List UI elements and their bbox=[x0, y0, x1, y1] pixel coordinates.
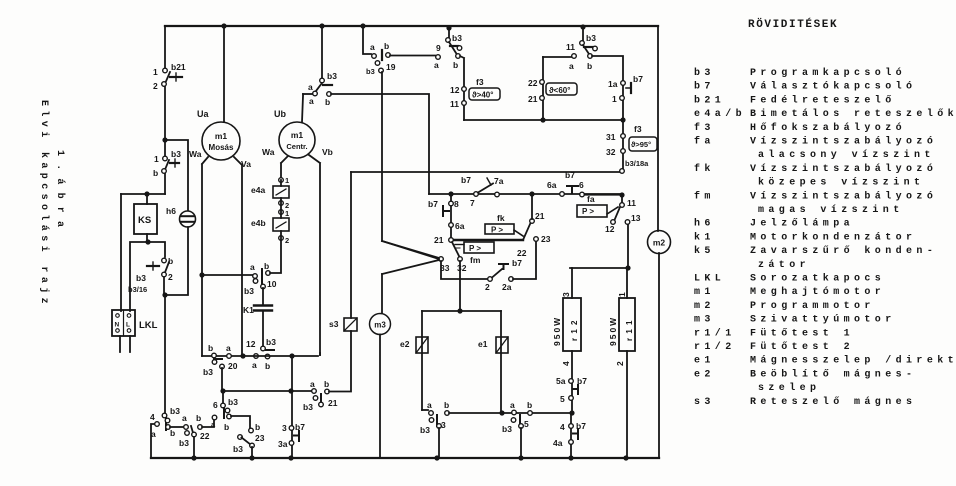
selector b7 contacts 1a-1 bbox=[621, 81, 626, 86]
pressure switch fm contacts 21-32-33 bbox=[449, 238, 454, 243]
wire 11 b right and down bbox=[592, 56, 623, 120]
svg-text:m1: m1 bbox=[291, 130, 304, 140]
switch b3 contact 10 bbox=[202, 274, 253, 276]
svg-text:b: b bbox=[587, 61, 592, 71]
svg-text:b3: b3 bbox=[170, 406, 180, 416]
pressure switch fk bbox=[452, 239, 523, 241]
svg-text:Fedélreteszelő: Fedélreteszelő bbox=[750, 94, 896, 106]
switch b3 contact 21 (lower middle) bbox=[312, 389, 317, 394]
svg-text:m1: m1 bbox=[694, 287, 715, 298]
svg-text:b3: b3 bbox=[420, 425, 430, 435]
svg-text:2: 2 bbox=[485, 282, 490, 292]
switch b3 contact 11 bbox=[582, 27, 584, 40]
svg-text:fa: fa bbox=[694, 136, 715, 148]
svg-text:a: a bbox=[434, 60, 439, 70]
svg-text:Vízszintszabályozó: Vízszintszabályozó bbox=[750, 136, 937, 148]
svg-text:4a: 4a bbox=[553, 438, 563, 448]
svg-text:Ua: Ua bbox=[197, 109, 209, 119]
wire row y413 bbox=[449, 412, 571, 414]
svg-text:e4a/b: e4a/b bbox=[694, 108, 746, 120]
wire switch22 b up to contact a bbox=[198, 425, 203, 430]
svg-text:e2: e2 bbox=[400, 339, 410, 349]
svg-text:m1: m1 bbox=[215, 131, 228, 141]
svg-text:r 1 1: r 1 1 bbox=[625, 320, 634, 341]
node junction above KS bbox=[121, 193, 165, 195]
wire r1/1 pin2 down bbox=[626, 351, 628, 458]
selector b7 contacts 2-2a bbox=[488, 277, 493, 282]
svg-text:b3: b3 bbox=[179, 438, 189, 448]
svg-text:Ub: Ub bbox=[274, 109, 286, 119]
svg-text:r 1 2: r 1 2 bbox=[570, 320, 579, 341]
svg-text:m3: m3 bbox=[374, 321, 386, 330]
wire fm 32 down to e-valve row bbox=[459, 261, 461, 311]
svg-text:b7: b7 bbox=[633, 74, 643, 84]
svg-text:Fütőtest 1: Fütőtest 1 bbox=[750, 327, 854, 339]
wire 9 b down to f3 bbox=[460, 56, 464, 120]
svg-text:LKL: LKL bbox=[139, 320, 158, 331]
svg-text:RÖVIDITÉSEK: RÖVIDITÉSEK bbox=[748, 17, 838, 31]
wire top supply bus bbox=[165, 25, 658, 27]
wire b3/16 down to switch 4 bbox=[164, 295, 166, 413]
svg-text:23: 23 bbox=[541, 234, 551, 244]
svg-text:P >: P > bbox=[491, 226, 503, 235]
svg-text:4: 4 bbox=[561, 361, 571, 366]
wire Vb corner into row bbox=[319, 353, 321, 355]
wire horizontal y120 bbox=[464, 119, 623, 121]
svg-text:1: 1 bbox=[154, 154, 159, 164]
wire to terminal L bbox=[130, 242, 148, 311]
svg-text:P >: P > bbox=[469, 244, 481, 253]
selector b7 contacts 7-7a bbox=[474, 192, 479, 197]
svg-text:6a: 6a bbox=[547, 180, 557, 190]
svg-text:7a: 7a bbox=[494, 176, 504, 186]
switch b3 a-b (above spin motor) bbox=[321, 26, 323, 78]
pressure switch fa contacts 11-12-13 bbox=[621, 195, 623, 203]
svg-text:b3: b3 bbox=[233, 444, 243, 454]
svg-text:1.ábra: 1.ábra bbox=[54, 150, 66, 235]
svg-text:Reteszelő mágnes: Reteszelő mágnes bbox=[750, 396, 916, 408]
svg-text:21: 21 bbox=[434, 235, 444, 245]
wire b3 a to motor top bbox=[303, 93, 312, 95]
svg-text:5: 5 bbox=[524, 419, 529, 429]
svg-text:22: 22 bbox=[528, 78, 538, 88]
svg-text:közepes vízszint: közepes vízszint bbox=[758, 177, 924, 189]
wire to lamp h6 bbox=[165, 140, 188, 210]
svg-text:Motorkondenzátor: Motorkondenzátor bbox=[750, 231, 916, 243]
svg-text:KS: KS bbox=[138, 215, 151, 226]
svg-text:1a: 1a bbox=[608, 79, 618, 89]
node junction b3/16 bottom bbox=[162, 292, 167, 297]
svg-text:ϑ>95°: ϑ>95° bbox=[631, 140, 651, 149]
svg-text:Beöblítő mágnes-: Beöblítő mágnes- bbox=[750, 368, 916, 380]
wire bottom rail bbox=[151, 457, 659, 459]
svg-text:s3: s3 bbox=[694, 397, 715, 408]
svg-text:b3: b3 bbox=[694, 67, 715, 79]
svg-text:Fütőtest 2: Fütőtest 2 bbox=[750, 341, 854, 353]
svg-text:b3: b3 bbox=[502, 424, 512, 434]
svg-text:magas vízszint: magas vízszint bbox=[758, 204, 904, 216]
wire x292 down through 3-3a bbox=[291, 356, 293, 458]
svg-text:12: 12 bbox=[605, 224, 615, 234]
node junction row y391 left bbox=[220, 388, 225, 393]
thermostat f3 95deg contacts 31-32 bbox=[622, 120, 624, 171]
bimetal interlock e4a contacts 1-2 bbox=[279, 178, 284, 183]
svg-text:b3: b3 bbox=[366, 67, 375, 76]
wire right edge drop to m2 bbox=[657, 26, 659, 231]
svg-text:b3: b3 bbox=[586, 33, 596, 43]
svg-text:Vb: Vb bbox=[322, 147, 333, 157]
svg-text:6: 6 bbox=[213, 400, 218, 410]
wire 19 b to 9 a bbox=[390, 55, 435, 57]
switch b3 contact 12 bbox=[261, 346, 266, 351]
switch b3 contact 6 cluster bbox=[222, 391, 224, 403]
svg-text:ϑ<60°: ϑ<60° bbox=[549, 86, 570, 95]
svg-text:b: b bbox=[325, 97, 330, 107]
heater r1/1 950W bbox=[619, 298, 635, 351]
svg-text:Szivattyúmotor: Szivattyúmotor bbox=[750, 314, 896, 326]
svg-text:zátor: zátor bbox=[758, 259, 810, 271]
wire m2 to bottom rail bbox=[658, 253, 660, 458]
wire sw21 b to s3 bbox=[329, 331, 351, 392]
svg-text:a: a bbox=[182, 413, 187, 423]
wire m1 centr Vb down bbox=[309, 155, 320, 355]
svg-text:a: a bbox=[226, 343, 231, 353]
svg-text:b: b bbox=[224, 422, 229, 432]
switch b21 (lid interlock) contacts 1-2 bbox=[164, 26, 166, 68]
svg-text:b3: b3 bbox=[327, 71, 337, 81]
wire e4 chain bbox=[280, 180, 282, 240]
svg-text:a: a bbox=[427, 400, 432, 410]
svg-text:21: 21 bbox=[328, 398, 338, 408]
wire diagonals to fm 33 bbox=[382, 241, 439, 259]
wire 2a to contact 23 bbox=[513, 241, 536, 279]
svg-text:4: 4 bbox=[150, 412, 155, 422]
svg-text:Vízszintszabályozó: Vízszintszabályozó bbox=[750, 190, 937, 202]
svg-text:5: 5 bbox=[560, 394, 565, 404]
svg-text:3: 3 bbox=[282, 423, 287, 433]
wire m1 Va terminal down bbox=[234, 157, 242, 356]
svg-text:b: b bbox=[196, 413, 201, 423]
svg-text:1: 1 bbox=[285, 176, 289, 185]
svg-text:K1: K1 bbox=[243, 305, 254, 315]
svg-text:b7: b7 bbox=[694, 81, 715, 93]
switch b3 contact 23 bbox=[238, 435, 243, 440]
svg-text:21: 21 bbox=[528, 94, 538, 104]
svg-text:fk: fk bbox=[694, 163, 715, 175]
svg-text:4: 4 bbox=[560, 422, 565, 432]
svg-text:b7: b7 bbox=[576, 421, 586, 431]
wire m1 centr top to b3 a bbox=[302, 94, 303, 122]
svg-text:b3: b3 bbox=[266, 337, 276, 347]
bimetal interlock e4b contacts 1-2 bbox=[279, 210, 284, 215]
node junction h6 branch bbox=[162, 137, 167, 142]
svg-text:k5: k5 bbox=[694, 245, 715, 257]
svg-text:a: a bbox=[510, 400, 515, 410]
wire fm 33 down and right bbox=[441, 261, 488, 279]
solenoid s3 (interlock magnet) bbox=[344, 318, 357, 331]
wire s3 up to line y172 bbox=[350, 172, 352, 318]
wire 19 common down to fm 33 bbox=[382, 72, 439, 258]
svg-text:L: L bbox=[126, 322, 130, 329]
wire r1/1 pin1 up to 13 bbox=[627, 222, 628, 298]
svg-text:e1: e1 bbox=[478, 339, 488, 349]
svg-text:b3: b3 bbox=[171, 149, 181, 159]
svg-text:a: a bbox=[252, 360, 257, 370]
selector b7 contacts 4-4a bbox=[570, 413, 572, 458]
svg-text:32: 32 bbox=[457, 263, 467, 273]
svg-text:r1/2: r1/2 bbox=[694, 341, 736, 353]
svg-text:b21: b21 bbox=[171, 62, 186, 72]
svg-text:Vízszintszabályozó: Vízszintszabályozó bbox=[750, 163, 937, 175]
svg-text:fk: fk bbox=[497, 213, 505, 223]
svg-text:6a: 6a bbox=[455, 221, 465, 231]
wire b3 b to line y194 bbox=[331, 94, 429, 194]
svg-text:11: 11 bbox=[450, 99, 459, 109]
svg-text:f3: f3 bbox=[634, 124, 642, 134]
switch b3 contact 22 bbox=[184, 425, 189, 430]
wire h6 bottom branch bbox=[165, 227, 188, 295]
svg-text:f3: f3 bbox=[476, 77, 484, 87]
wire horizontal line y194 bbox=[429, 193, 622, 195]
wire e-valve feeder row y311 bbox=[422, 310, 501, 312]
node junction x291 crossing bbox=[288, 388, 293, 393]
svg-text:b7: b7 bbox=[512, 258, 522, 268]
svg-text:Wa: Wa bbox=[262, 147, 275, 157]
svg-text:Meghajtómotor: Meghajtómotor bbox=[750, 286, 885, 298]
svg-text:Mágnesszelep /direkt/: Mágnesszelep /direkt/ bbox=[750, 355, 956, 367]
svg-text:N: N bbox=[115, 322, 120, 329]
svg-text:2: 2 bbox=[615, 361, 625, 366]
selector b7 contacts 5a-5 bbox=[571, 351, 573, 413]
thermostat f3 40deg contacts 12-11 bbox=[462, 87, 467, 92]
svg-text:e4b: e4b bbox=[251, 218, 266, 228]
svg-text:fm: fm bbox=[694, 190, 715, 202]
svg-text:r1/1: r1/1 bbox=[694, 327, 736, 339]
svg-text:b: b bbox=[527, 400, 532, 410]
svg-text:b3: b3 bbox=[303, 402, 313, 412]
svg-text:2: 2 bbox=[285, 236, 289, 245]
svg-text:3: 3 bbox=[441, 420, 446, 430]
svg-text:13: 13 bbox=[631, 213, 641, 223]
svg-text:1: 1 bbox=[617, 292, 627, 297]
svg-text:Elvi kapcsolási rajz: Elvi kapcsolási rajz bbox=[38, 100, 50, 308]
wire 10 b up to e4b bbox=[270, 240, 281, 273]
svg-text:b3: b3 bbox=[203, 367, 213, 377]
svg-text:a: a bbox=[211, 420, 216, 429]
svg-text:b3: b3 bbox=[244, 286, 254, 296]
node junction below KS bbox=[145, 239, 150, 244]
svg-text:11: 11 bbox=[566, 42, 575, 52]
svg-text:LKL: LKL bbox=[694, 274, 725, 285]
svg-text:31: 31 bbox=[606, 132, 616, 142]
svg-text:2: 2 bbox=[153, 81, 158, 91]
svg-text:b7: b7 bbox=[428, 199, 438, 209]
svg-text:Wa: Wa bbox=[189, 149, 202, 159]
svg-text:b: b bbox=[444, 400, 449, 410]
selector b7 contacts 6a-6 bbox=[560, 192, 565, 197]
switch b3 contact 4 cluster bottom left bbox=[162, 413, 167, 418]
svg-text:b21: b21 bbox=[694, 94, 725, 106]
svg-text:a: a bbox=[250, 262, 255, 272]
capacitor KS (k5) bbox=[146, 194, 148, 204]
svg-text:32: 32 bbox=[606, 147, 616, 157]
switch b3 contact 5 bbox=[512, 410, 517, 415]
svg-text:3: 3 bbox=[561, 292, 571, 297]
svg-text:950W: 950W bbox=[552, 316, 562, 346]
wire heater link y268 bbox=[570, 267, 628, 269]
svg-text:Jelzőlámpa: Jelzőlámpa bbox=[750, 218, 854, 230]
svg-text:10: 10 bbox=[267, 279, 277, 289]
selector b7 contacts 3-3a bbox=[289, 426, 294, 431]
svg-text:a: a bbox=[309, 96, 314, 106]
wire to terminal N bbox=[120, 194, 122, 311]
svg-text:23: 23 bbox=[255, 433, 265, 443]
svg-text:s3: s3 bbox=[329, 319, 339, 329]
svg-text:b7: b7 bbox=[577, 376, 587, 386]
svg-text:22: 22 bbox=[517, 248, 527, 258]
svg-text:Bimetálos reteszelők: Bimetálos reteszelők bbox=[750, 108, 956, 120]
svg-text:19: 19 bbox=[386, 62, 396, 72]
svg-text:b7: b7 bbox=[295, 422, 305, 432]
terminal block LKL bbox=[112, 310, 135, 336]
switch b3 b3/16 contacts b-2 bbox=[148, 242, 165, 257]
svg-text:P >: P > bbox=[582, 207, 594, 216]
svg-text:b: b bbox=[168, 256, 173, 266]
heater r1/2 950W bbox=[563, 298, 581, 351]
lamp h6 bbox=[180, 211, 196, 227]
svg-text:b: b bbox=[384, 41, 389, 51]
solenoid valve e1 bbox=[500, 311, 502, 413]
svg-text:1: 1 bbox=[285, 209, 289, 218]
pump motor m3 bbox=[381, 274, 383, 313]
svg-text:b3/16: b3/16 bbox=[128, 285, 147, 294]
wire 20 down to junction bbox=[221, 368, 223, 391]
svg-text:20: 20 bbox=[228, 361, 238, 371]
svg-text:ϑ>40°: ϑ>40° bbox=[472, 91, 493, 100]
svg-text:22: 22 bbox=[200, 431, 210, 441]
svg-text:e1: e1 bbox=[694, 356, 715, 367]
svg-text:a: a bbox=[310, 379, 315, 389]
wire 60deg top to 11 a bbox=[543, 56, 571, 58]
svg-text:b3: b3 bbox=[228, 397, 238, 407]
svg-text:Választókapcsoló: Választókapcsoló bbox=[750, 81, 916, 93]
svg-text:b7: b7 bbox=[461, 175, 471, 185]
svg-text:2a: 2a bbox=[502, 282, 512, 292]
svg-text:7: 7 bbox=[470, 198, 475, 208]
svg-text:6: 6 bbox=[579, 180, 584, 190]
svg-text:Zavarszűrő konden-: Zavarszűrő konden- bbox=[750, 245, 937, 257]
wire switch6 to contact b of 23 bbox=[231, 416, 250, 428]
svg-text:m2: m2 bbox=[653, 238, 666, 248]
svg-text:21: 21 bbox=[535, 211, 545, 221]
svg-text:Va: Va bbox=[241, 159, 251, 169]
svg-text:a: a bbox=[308, 82, 313, 92]
svg-text:m2: m2 bbox=[694, 301, 715, 312]
svg-text:m3: m3 bbox=[694, 315, 715, 326]
svg-text:b3/18a: b3/18a bbox=[625, 159, 649, 168]
svg-text:12: 12 bbox=[450, 85, 460, 95]
svg-text:szelep: szelep bbox=[758, 382, 820, 394]
wire horizontal row y391 bbox=[223, 390, 312, 392]
svg-text:Centr.: Centr. bbox=[286, 142, 307, 151]
wire r1/2 pin3 up bbox=[571, 268, 573, 298]
svg-text:9: 9 bbox=[436, 43, 441, 53]
svg-text:Hőfokszabályozó: Hőfokszabályozó bbox=[750, 122, 906, 134]
svg-text:b: b bbox=[153, 168, 158, 178]
svg-text:b: b bbox=[264, 261, 269, 271]
svg-text:e2: e2 bbox=[694, 369, 715, 380]
wire m1 centr Wa down to e4a bbox=[281, 156, 288, 180]
svg-text:3a: 3a bbox=[278, 439, 288, 449]
svg-text:f3: f3 bbox=[694, 122, 715, 134]
svg-text:e4a: e4a bbox=[251, 185, 265, 195]
switch b3 contact 20 bbox=[212, 353, 217, 358]
svg-text:8: 8 bbox=[454, 199, 459, 209]
svg-text:5a: 5a bbox=[556, 376, 566, 386]
svg-text:b: b bbox=[265, 361, 270, 371]
selector b7 contacts 8-6a bbox=[450, 194, 452, 239]
thermostat f3 60deg contacts 22-21 bbox=[542, 57, 544, 120]
solenoid valve e2 bbox=[421, 311, 423, 410]
svg-text:h6: h6 bbox=[166, 206, 176, 216]
wire m1 Wa terminal down bbox=[202, 157, 208, 356]
wire rail left end up to contact a bbox=[151, 424, 154, 458]
svg-text:Programkapcsoló: Programkapcsoló bbox=[750, 67, 906, 79]
switch b3 contact 9 bbox=[448, 28, 450, 38]
switch b3 contacts 1-b bbox=[164, 140, 166, 156]
switch b3 contact 19 bbox=[363, 26, 371, 54]
svg-text:a: a bbox=[151, 429, 156, 439]
wire switch4 b to switch22 a bbox=[170, 426, 184, 428]
svg-text:Sorozatkapocs: Sorozatkapocs bbox=[750, 273, 885, 285]
svg-text:k1: k1 bbox=[694, 231, 715, 243]
svg-text:a: a bbox=[569, 61, 574, 71]
svg-text:b: b bbox=[170, 428, 175, 438]
svg-text:b: b bbox=[324, 379, 329, 389]
svg-text:b3: b3 bbox=[136, 273, 146, 283]
wire horizontal line y172 bbox=[351, 171, 620, 173]
wire LKL stubs below bbox=[120, 336, 130, 352]
svg-text:12: 12 bbox=[246, 339, 256, 349]
svg-text:Programmotor: Programmotor bbox=[750, 301, 875, 312]
svg-text:b7: b7 bbox=[565, 170, 575, 180]
capacitor k1 bbox=[262, 288, 264, 304]
svg-text:Mosás: Mosás bbox=[209, 143, 234, 152]
svg-text:1: 1 bbox=[612, 94, 617, 104]
svg-text:h6: h6 bbox=[694, 218, 715, 230]
wire row y356 bbox=[202, 355, 318, 357]
svg-text:b: b bbox=[208, 343, 213, 353]
svg-text:fm: fm bbox=[470, 255, 481, 265]
program motor m2 bbox=[648, 231, 671, 254]
svg-text:950W: 950W bbox=[608, 316, 618, 346]
svg-text:b: b bbox=[453, 60, 458, 70]
switch b3 contact 3 bbox=[422, 409, 428, 411]
svg-text:2: 2 bbox=[168, 272, 173, 282]
svg-text:a: a bbox=[370, 42, 375, 52]
svg-text:b: b bbox=[255, 422, 260, 432]
svg-text:11: 11 bbox=[627, 198, 636, 208]
svg-text:b3: b3 bbox=[452, 33, 462, 43]
svg-text:fa: fa bbox=[587, 194, 595, 204]
svg-text:1: 1 bbox=[153, 67, 158, 77]
svg-text:alacsony vízszint: alacsony vízszint bbox=[758, 149, 935, 161]
